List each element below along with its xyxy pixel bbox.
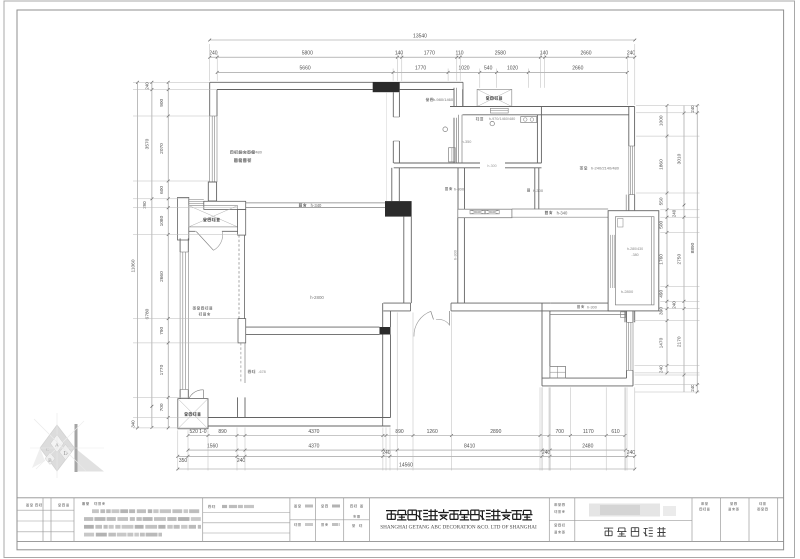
svg-text:520 1-0: 520 1-0: [190, 429, 207, 435]
svg-text:h-980/1460: h-980/1460: [433, 97, 454, 102]
svg-text:h-970/1460/480: h-970/1460/480: [489, 117, 516, 121]
svg-text:3010: 3010: [677, 153, 683, 164]
svg-text:2750: 2750: [677, 254, 683, 265]
svg-text:2480: 2480: [582, 443, 593, 449]
svg-text:SHANGHAI GETANG ABC DECORATION: SHANGHAI GETANG ABC DECORATION &CO. LTD …: [380, 524, 537, 530]
svg-text:600: 600: [159, 186, 165, 194]
svg-text:-678: -678: [258, 370, 266, 374]
svg-text:240: 240: [209, 50, 218, 56]
svg-text:1000: 1000: [658, 115, 664, 126]
svg-text:3570: 3570: [145, 138, 151, 149]
svg-text:B: B: [48, 458, 52, 464]
svg-text:h-300: h-300: [454, 250, 458, 260]
svg-text:2660: 2660: [159, 271, 165, 282]
svg-text:890: 890: [218, 429, 227, 435]
svg-text:2170: 2170: [677, 336, 683, 347]
svg-text:5800: 5800: [302, 50, 313, 56]
svg-text:4370: 4370: [308, 443, 319, 449]
svg-text:h-2800: h-2800: [310, 295, 324, 300]
svg-text:540: 540: [484, 66, 493, 72]
svg-text:13540: 13540: [413, 34, 427, 40]
svg-text:390: 390: [658, 307, 664, 315]
svg-text:1760: 1760: [658, 254, 664, 265]
svg-text:1020: 1020: [507, 66, 518, 72]
svg-text:2660: 2660: [572, 66, 583, 72]
svg-text:350: 350: [179, 458, 188, 464]
svg-text:h-300: h-300: [487, 164, 496, 168]
svg-text:5660: 5660: [300, 66, 311, 72]
svg-text:240: 240: [237, 458, 246, 464]
svg-text:290: 290: [142, 201, 147, 209]
svg-text:700: 700: [159, 403, 165, 411]
svg-text:240: 240: [690, 384, 695, 392]
svg-text:1080: 1080: [159, 215, 165, 226]
svg-text:6780: 6780: [145, 308, 151, 319]
svg-text:h-2800: h-2800: [621, 289, 634, 294]
svg-text:550: 550: [658, 197, 664, 205]
svg-text:240: 240: [672, 301, 677, 309]
svg-text:490: 490: [658, 289, 664, 297]
svg-text:340: 340: [130, 420, 135, 428]
svg-text:890: 890: [395, 429, 404, 435]
svg-text:h-300: h-300: [587, 305, 597, 309]
svg-text:700: 700: [556, 429, 565, 435]
svg-text:1170: 1170: [583, 429, 594, 435]
svg-text:h-350: h-350: [462, 140, 472, 144]
svg-text:610: 610: [611, 429, 620, 435]
svg-text:240: 240: [627, 50, 636, 56]
svg-text:h-300: h-300: [533, 188, 544, 193]
svg-text:240: 240: [145, 82, 150, 90]
svg-text:240: 240: [658, 365, 664, 373]
svg-text:900: 900: [159, 98, 165, 106]
svg-text:-380: -380: [631, 253, 638, 257]
svg-text:1860: 1860: [658, 159, 664, 170]
svg-text:240: 240: [672, 209, 677, 217]
svg-text:1770: 1770: [159, 364, 165, 375]
svg-text:h-340: h-340: [557, 211, 568, 216]
svg-text:14560: 14560: [399, 463, 413, 469]
svg-text:8890: 8890: [690, 242, 696, 253]
svg-text:1260: 1260: [427, 429, 438, 435]
svg-text:1470: 1470: [658, 337, 664, 348]
svg-text:h-240/2140/480: h-240/2140/480: [234, 150, 263, 155]
svg-text:D: D: [63, 451, 68, 457]
svg-text:2890: 2890: [490, 429, 501, 435]
svg-text:2580: 2580: [495, 50, 506, 56]
svg-text:h-300: h-300: [454, 187, 465, 192]
svg-text:4370: 4370: [308, 429, 319, 435]
svg-text:140: 140: [395, 50, 404, 56]
svg-text:500: 500: [658, 220, 664, 228]
svg-text:2070: 2070: [159, 143, 165, 154]
svg-text:790: 790: [159, 326, 165, 334]
svg-text:240: 240: [627, 450, 636, 456]
svg-text:11060: 11060: [130, 259, 136, 272]
svg-text:1560: 1560: [207, 443, 218, 449]
svg-text:8410: 8410: [464, 443, 475, 449]
svg-text:h-280/430: h-280/430: [627, 247, 643, 251]
svg-text:1770: 1770: [415, 66, 426, 72]
svg-text:240: 240: [382, 450, 391, 456]
svg-text:240: 240: [690, 105, 695, 113]
svg-text:140: 140: [540, 50, 549, 56]
svg-text:h-340: h-340: [311, 203, 322, 208]
svg-text:1770: 1770: [424, 50, 435, 56]
svg-text:2660: 2660: [580, 50, 591, 56]
svg-text:h-240/2140/480: h-240/2140/480: [591, 166, 620, 171]
